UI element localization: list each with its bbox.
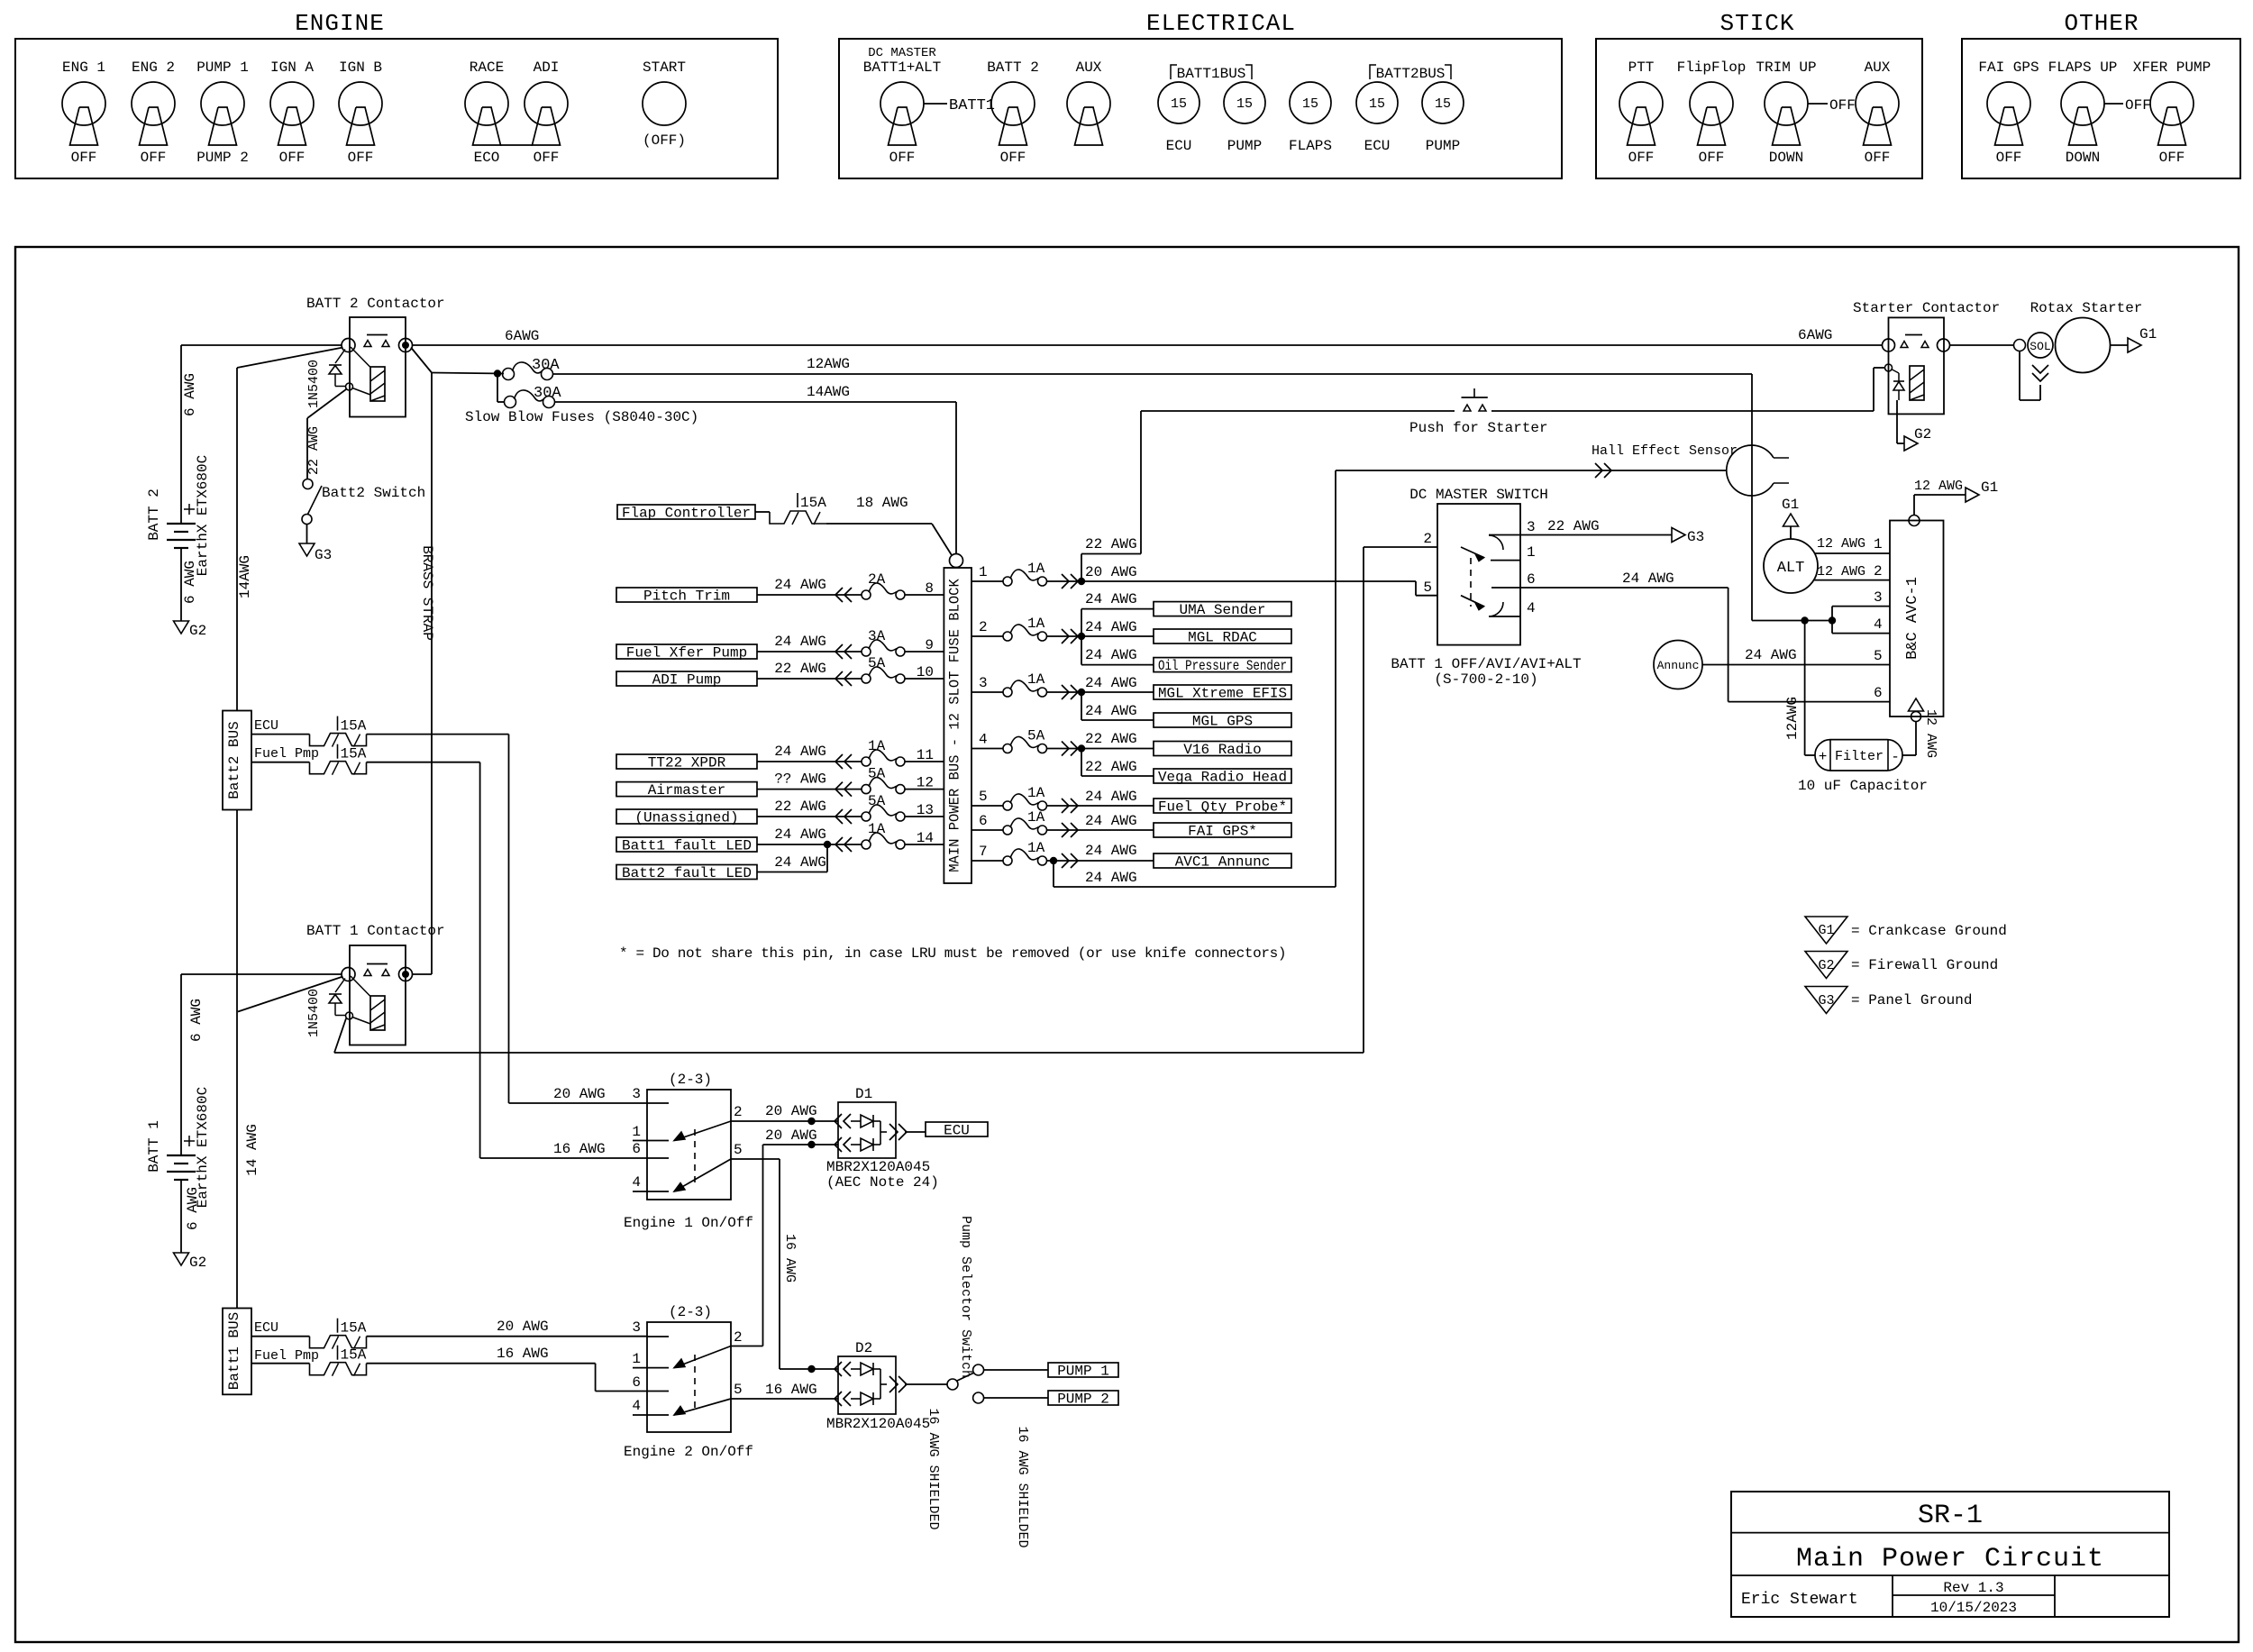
svg-text:24 AWG: 24 AWG <box>1085 789 1137 805</box>
svg-text:Fuel Pmp: Fuel Pmp <box>254 1348 319 1364</box>
contactor BATT 2 Contactor coil <box>370 367 385 401</box>
svg-text:22 AWG: 22 AWG <box>1085 759 1137 775</box>
svg-text:G3: G3 <box>1818 993 1834 1009</box>
load box Batt2 fault LED <box>616 865 757 880</box>
svg-text:Airmaster: Airmaster <box>648 782 725 799</box>
fuse 15A PUMP (BATT1BUS) <box>1224 82 1265 123</box>
contactor BATT 2 Contactor flyback diode 1N5400 <box>335 350 345 364</box>
wire BATT2 left terminal to 14AWG drop <box>237 348 343 369</box>
svg-text:OFF: OFF <box>1829 97 1856 114</box>
Engine2 pin 1 contact <box>633 1367 669 1369</box>
svg-text:Rev 1.3: Rev 1.3 <box>1943 1580 2003 1596</box>
junction splice D1 lower <box>807 1141 815 1148</box>
svg-text:BATT 2: BATT 2 <box>987 59 1039 76</box>
svg-text:22 AWG: 22 AWG <box>1085 731 1137 747</box>
wire 12 AWG ALT to B&C pin 2 <box>1814 580 1891 581</box>
Engine1 pin 5 wire <box>731 1158 780 1160</box>
svg-text:2: 2 <box>1874 563 1883 580</box>
svg-text:3: 3 <box>1527 519 1536 535</box>
svg-text:12 AWG: 12 AWG <box>1923 709 1938 758</box>
toggle switch ADI <box>524 82 568 125</box>
svg-text:30A: 30A <box>532 357 560 374</box>
svg-text:20 AWG: 20 AWG <box>553 1086 606 1102</box>
svg-text:OFF: OFF <box>141 150 167 166</box>
svg-text:RACE: RACE <box>470 59 504 76</box>
fuse block right pin 7 <box>971 860 1003 862</box>
wire Batt2 coil to Batt2 Switch <box>307 389 346 418</box>
svg-text:20 AWG: 20 AWG <box>765 1127 817 1144</box>
wire 30A lower feed <box>497 374 498 403</box>
contactor box Starter Contactor <box>1889 317 1945 414</box>
wire 12AWG down to filter <box>1804 621 1806 756</box>
svg-text:Pitch Trim: Pitch Trim <box>643 589 730 605</box>
svg-text:6 AWG: 6 AWG <box>188 999 205 1042</box>
Engine1 pin 3 contact <box>647 1102 669 1104</box>
wire Engine2 pin2 riser to D1 lower <box>731 1346 763 1347</box>
wire pin6 to FAI GPS <box>1047 829 1154 831</box>
wire 12AWG fuse to starter area <box>553 373 1753 375</box>
ground G2 (BATT 2) <box>174 621 189 634</box>
pushbutton START <box>643 82 686 125</box>
svg-text:ECO: ECO <box>474 150 500 166</box>
svg-text:8: 8 <box>925 580 934 597</box>
svg-text:DOWN: DOWN <box>2066 150 2100 166</box>
pushbutton Push for Starter <box>1462 397 1488 398</box>
svg-text:V16 Radio: V16 Radio <box>1183 742 1261 758</box>
annunciator Annunc <box>1654 641 1702 689</box>
svg-text:MGL Xtreme EFIS: MGL Xtreme EFIS <box>1158 686 1287 702</box>
svg-text:3: 3 <box>632 1319 641 1336</box>
Engine1 pin 6 contact <box>647 1157 669 1159</box>
svg-text:G2: G2 <box>189 1255 206 1271</box>
svg-text:MGL RDAC: MGL RDAC <box>1188 630 1257 646</box>
svg-text:BATT 1 Contactor: BATT 1 Contactor <box>306 923 445 939</box>
svg-text:22 AWG: 22 AWG <box>774 799 826 815</box>
wire Fuel Xfer Pump to fuse block pin 9 <box>757 651 862 653</box>
svg-text:IGN A: IGN A <box>270 59 314 76</box>
Engine1 blade 5-4 <box>674 1159 731 1191</box>
toggle switch AUX <box>1067 82 1110 125</box>
hall effect sensor ring <box>1727 445 1774 496</box>
svg-text:10: 10 <box>917 664 934 680</box>
svg-text:ALT: ALT <box>1777 560 1805 577</box>
ground G1 (B&C top) <box>1966 488 1979 502</box>
svg-text:14 AWG: 14 AWG <box>244 1124 260 1176</box>
svg-text:22 AWG: 22 AWG <box>774 661 826 677</box>
Engine1 mech link dashed <box>694 1129 696 1182</box>
svg-text:D1: D1 <box>855 1086 872 1102</box>
fuse block right pin 3 <box>971 691 1003 693</box>
svg-text:= Crankcase Ground: = Crankcase Ground <box>1851 923 2007 939</box>
wire BATT1 left terminal to 14AWG riser <box>238 977 343 1012</box>
capacitor Filter 10uF <box>1815 740 1902 771</box>
svg-text:MAIN POWER BUS - 12 SLOT FUSE: MAIN POWER BUS - 12 SLOT FUSE BLOCK <box>947 579 963 872</box>
solenoid SOL <box>2028 333 2053 358</box>
svg-text:1A: 1A <box>868 821 886 837</box>
load box Oil Pressure Sender <box>1154 658 1291 672</box>
svg-text:24 AWG: 24 AWG <box>1745 647 1797 663</box>
fuse block top terminal <box>950 554 963 568</box>
svg-text:ADI: ADI <box>534 59 560 76</box>
svg-text:Fuel Qty Probe*: Fuel Qty Probe* <box>1158 799 1287 816</box>
svg-text:ECU: ECU <box>254 718 278 734</box>
svg-text:+: + <box>1819 749 1828 765</box>
svg-text:(OFF): (OFF) <box>643 132 686 149</box>
svg-text:SOL: SOL <box>2030 340 2050 353</box>
wire starter coil to ground <box>1896 400 1898 443</box>
Engine2 mech link dashed <box>694 1355 696 1413</box>
svg-text:5A: 5A <box>1027 728 1045 744</box>
svg-text:24 AWG: 24 AWG <box>774 634 826 650</box>
svg-text:FlipFlop: FlipFlop <box>1677 59 1747 76</box>
svg-text:16 AWG SHIELDED: 16 AWG SHIELDED <box>926 1408 941 1529</box>
Engine1 pin 4 contact <box>633 1191 669 1192</box>
Engine1 pin 1 contact <box>633 1140 669 1142</box>
toggle switch RACE/ECO <box>465 82 508 125</box>
svg-text:Push for Starter: Push for Starter <box>1409 420 1548 436</box>
wire Batt1 fault LED to fuse block pin 14 <box>757 844 862 845</box>
svg-text:4: 4 <box>979 732 988 748</box>
wire brass strap to BATT1 right terminal <box>413 973 432 975</box>
load box MGL RDAC <box>1154 629 1291 643</box>
svg-text:15: 15 <box>1171 96 1187 112</box>
svg-text:16 AWG SHIELDED: 16 AWG SHIELDED <box>1015 1426 1030 1547</box>
svg-text:UMA Sender: UMA Sender <box>1179 602 1265 618</box>
svg-text:G1: G1 <box>1981 479 1998 496</box>
battery BATT 1 plates <box>167 1155 196 1156</box>
fuse 15A FLAPS <box>1290 82 1331 123</box>
svg-text:10/15/2023: 10/15/2023 <box>1930 1600 2017 1616</box>
B&C top terminal <box>1909 516 1920 526</box>
fuse 30A lower <box>505 397 516 408</box>
svg-text:FLAPS UP: FLAPS UP <box>2048 59 2118 76</box>
svg-text:1A: 1A <box>1027 840 1045 856</box>
svg-text:24 AWG: 24 AWG <box>1085 591 1137 607</box>
svg-text:15: 15 <box>1302 96 1318 112</box>
svg-text:1A: 1A <box>1027 809 1045 826</box>
svg-text:24 AWG: 24 AWG <box>1085 813 1137 829</box>
svg-text:6AWG: 6AWG <box>1798 327 1832 343</box>
wire solenoid winding <box>2019 351 2020 401</box>
svg-text:ENG 1: ENG 1 <box>62 59 105 76</box>
wire hall sensor signal <box>1336 470 1727 471</box>
svg-text:15A: 15A <box>341 1320 367 1337</box>
svg-text:11: 11 <box>917 747 934 763</box>
svg-text:?? AWG: ?? AWG <box>774 771 826 788</box>
svg-text:3A: 3A <box>868 628 886 644</box>
fuse block MAIN POWER BUS - 12 SLOT FUSE BLOCK <box>944 568 971 883</box>
svg-text:Hall Effect Sensor: Hall Effect Sensor <box>1592 443 1738 459</box>
contactor BATT 1 Contactor contact triangles <box>364 970 371 976</box>
fuse block right pin 6 <box>971 829 1003 831</box>
ground G1 (ALT) <box>1783 514 1799 526</box>
fuse block right pin 4 <box>971 748 1003 750</box>
svg-text:MGL GPS: MGL GPS <box>1192 714 1253 730</box>
wire 24 AWG to MGL GPS <box>1081 692 1082 720</box>
svg-text:AVC1 Annunc: AVC1 Annunc <box>1175 854 1271 871</box>
panel box STICK <box>1596 39 1922 178</box>
load box Batt1 fault LED <box>616 837 757 852</box>
wire D2 output to pump selector <box>905 1383 947 1385</box>
wire Airmaster to fuse block pin 12 <box>757 789 862 790</box>
load box PUMP 1 <box>1048 1363 1118 1377</box>
svg-text:14AWG: 14AWG <box>237 555 253 598</box>
svg-text:Engine 2 On/Off: Engine 2 On/Off <box>624 1444 753 1460</box>
DC master blade upper <box>1461 547 1484 558</box>
ground G2 (starter) <box>1904 436 1918 451</box>
legend ground G3 <box>1805 987 1847 1014</box>
wire BATT2 battery positive lead <box>180 345 182 524</box>
svg-text:TT22 XPDR: TT22 XPDR <box>648 755 726 771</box>
svg-text:1: 1 <box>979 564 988 580</box>
panel box OTHER <box>1962 39 2240 178</box>
svg-text:= Firewall Ground: = Firewall Ground <box>1851 957 1998 973</box>
svg-text:12AWG: 12AWG <box>807 356 850 372</box>
starter contactor left terminal <box>1883 339 1895 351</box>
wire Batt2 fault LED join <box>757 872 827 873</box>
junction 12AWG <box>1801 616 1808 624</box>
DC master pin 6 contact <box>1491 587 1520 589</box>
svg-text:MBR2X120A045: MBR2X120A045 <box>826 1159 930 1175</box>
toggle switch PUMP 1 / PUMP 2 <box>201 82 244 125</box>
svg-text:12 AWG: 12 AWG <box>1817 536 1865 552</box>
svg-text:G2: G2 <box>189 623 206 639</box>
svg-text:ELECTRICAL: ELECTRICAL <box>1146 10 1296 37</box>
load box Airmaster <box>616 782 757 797</box>
svg-text:BATT 1: BATT 1 <box>146 1120 162 1173</box>
contactor BATT 1 Contactor coil terminal <box>346 1012 353 1019</box>
Engine2 pin 6 contact <box>647 1391 669 1392</box>
battery BATT 1 plus sign <box>184 1140 195 1142</box>
svg-text:(AEC Note 24): (AEC Note 24) <box>826 1174 939 1191</box>
svg-text:TRIM UP: TRIM UP <box>1756 59 1816 76</box>
svg-text:24 AWG: 24 AWG <box>1085 619 1137 635</box>
svg-text:24 AWG: 24 AWG <box>1085 843 1137 859</box>
contactor BATT 1 Contactor left terminal <box>342 968 355 981</box>
wire BATT1 battery positive lead <box>180 974 182 1155</box>
load box Pitch Trim <box>616 588 757 602</box>
svg-text:15A: 15A <box>341 1347 367 1364</box>
wire BATT1 coil to master switch line <box>334 1018 346 1053</box>
battery BATT 2 plates <box>167 523 196 525</box>
svg-text:G1: G1 <box>1818 923 1834 938</box>
alternator ALT <box>1764 539 1818 593</box>
wire 24 AWG annunc to B&C pin 5 <box>1702 664 1890 666</box>
load box MGL GPS <box>1154 713 1291 727</box>
load box Fuel Qty Probe* <box>1154 799 1291 813</box>
contactor BATT 2 Contactor left terminal <box>342 339 355 352</box>
Engine2 pin 3 contact <box>647 1336 669 1337</box>
svg-text:24 AWG: 24 AWG <box>1085 703 1137 719</box>
svg-text:1A: 1A <box>1027 671 1045 688</box>
wire B&C bottom to filter minus <box>1915 722 1917 756</box>
svg-text:1: 1 <box>1874 536 1883 552</box>
svg-text:= Panel Ground: = Panel Ground <box>1851 992 1972 1009</box>
svg-text:OFF: OFF <box>279 150 306 166</box>
svg-text:ADI Pump: ADI Pump <box>652 672 722 689</box>
svg-text:24 AWG: 24 AWG <box>774 854 826 871</box>
svg-text:BATT 2: BATT 2 <box>146 488 162 541</box>
battery BATT 2 plus sign <box>184 508 195 510</box>
svg-text:Starter Contactor: Starter Contactor <box>1853 300 2000 316</box>
starter contactor right terminal <box>1938 339 1950 351</box>
bus box Batt1 BUS <box>223 1309 251 1395</box>
svg-text:15: 15 <box>1369 96 1385 112</box>
svg-text:6: 6 <box>1527 571 1536 588</box>
svg-text:18 AWG: 18 AWG <box>856 495 908 511</box>
svg-text:BATT 1 OFF/AVI/AVI+ALT: BATT 1 OFF/AVI/AVI+ALT <box>1391 656 1581 672</box>
svg-text:16 AWG: 16 AWG <box>553 1141 606 1157</box>
svg-text:PUMP 2: PUMP 2 <box>1057 1392 1109 1408</box>
svg-text:* = Do not share this pin, in: * = Do not share this pin, in case LRU m… <box>619 945 1286 962</box>
svg-text:PUMP 1: PUMP 1 <box>1057 1364 1109 1380</box>
svg-text:16 AWG: 16 AWG <box>497 1346 549 1362</box>
svg-text:EarthX ETX680C: EarthX ETX680C <box>195 455 211 576</box>
svg-text:Batt2 Switch: Batt2 Switch <box>322 485 425 501</box>
svg-text:6: 6 <box>1874 685 1883 701</box>
svg-text:-: - <box>1891 749 1900 765</box>
panel box ELECTRICAL <box>839 39 1562 178</box>
panel box ENGINE <box>15 39 778 178</box>
svg-text:OFF: OFF <box>1865 150 1891 166</box>
toggle switch IGN A <box>270 82 314 125</box>
wire TRIM OFF tick <box>1808 103 1828 105</box>
wire 24 AWG to UMA Sender <box>1081 609 1082 636</box>
svg-text:OFF: OFF <box>1996 150 2022 166</box>
svg-text:15A: 15A <box>341 746 367 762</box>
svg-text:Batt1 BUS: Batt1 BUS <box>226 1312 242 1390</box>
svg-text:G3: G3 <box>315 547 332 563</box>
svg-text:FLAPS: FLAPS <box>1289 138 1332 154</box>
B&C bottom terminal <box>1911 712 1921 722</box>
contactor BATT 1 Contactor flyback diode 1N5400 <box>335 979 345 993</box>
breaker 15A flaps <box>770 511 826 524</box>
svg-text:G2: G2 <box>1818 958 1834 973</box>
svg-text:1A: 1A <box>868 738 886 754</box>
svg-text:24 AWG: 24 AWG <box>1622 570 1674 587</box>
wire DC master pin2 riser <box>1363 547 1364 1053</box>
svg-text:OFF: OFF <box>1628 150 1655 166</box>
svg-text:1: 1 <box>632 1124 641 1140</box>
wire 24 AWG pin7 branch to hall sensor feed <box>1053 861 1054 887</box>
wire rotax to G1 <box>2111 344 2129 346</box>
toggle switch TRIM UP/DOWN <box>1765 82 1808 125</box>
svg-text:6 AWG: 6 AWG <box>182 373 198 416</box>
svg-text:6: 6 <box>632 1141 641 1157</box>
svg-text:30A: 30A <box>534 385 561 402</box>
svg-text:AUX: AUX <box>1865 59 1891 76</box>
starter contactor coil <box>1910 366 1924 400</box>
starter contactor coil terminal <box>1885 364 1893 371</box>
svg-text:24 AWG: 24 AWG <box>1085 675 1137 691</box>
junction splice D1 upper <box>807 1118 815 1125</box>
toggle switch IGN B <box>339 82 382 125</box>
wire selector to PUMP 1 <box>984 1369 1048 1371</box>
svg-text:D2: D2 <box>855 1340 872 1356</box>
wire pin4 to V16 Radio <box>1047 748 1154 750</box>
svg-text:Batt2 fault LED: Batt2 fault LED <box>622 865 752 881</box>
svg-text:3: 3 <box>1874 589 1883 606</box>
svg-text:ECU: ECU <box>1166 138 1192 154</box>
svg-text:Batt2 BUS: Batt2 BUS <box>226 721 242 799</box>
svg-text:PUMP: PUMP <box>1426 138 1460 154</box>
DC master pin 1 contact <box>1491 560 1520 561</box>
load box TT22 XPDR <box>616 754 757 769</box>
wire pin2 junction <box>1047 635 1154 637</box>
wire 20AWG Batt2 ECU to Engine1 pin3 <box>367 734 509 735</box>
svg-text:OFF: OFF <box>2159 150 2185 166</box>
svg-text:OFF: OFF <box>1699 150 1725 166</box>
svg-text:Batt1 fault LED: Batt1 fault LED <box>622 838 752 854</box>
svg-text:FAI GPS: FAI GPS <box>1978 59 2039 76</box>
svg-text:15A: 15A <box>800 495 826 511</box>
svg-text:Oil Pressure Sender: Oil Pressure Sender <box>1158 658 1287 674</box>
svg-text:1A: 1A <box>1027 616 1045 632</box>
svg-text:BATT 2 Contactor: BATT 2 Contactor <box>306 296 445 312</box>
svg-text:16 AWG: 16 AWG <box>782 1234 798 1282</box>
wire 24 AWG to Oil Pressure Sender <box>1081 636 1082 665</box>
toggle switch ENG 1 <box>62 82 105 125</box>
wire brass strap <box>411 348 432 373</box>
svg-text:14AWG: 14AWG <box>807 384 850 400</box>
DC master blade lower <box>1461 596 1484 607</box>
Engine2 blade 2-1 <box>674 1346 731 1368</box>
svg-text:5: 5 <box>979 789 988 805</box>
svg-text:BATT1BUS: BATT1BUS <box>1177 66 1246 82</box>
svg-text:12: 12 <box>917 775 934 791</box>
switch Pump Selector Switch <box>947 1379 958 1390</box>
bus box Batt2 BUS <box>223 711 251 810</box>
load box UMA Sender <box>1154 602 1291 616</box>
svg-text:12AWG: 12AWG <box>1784 697 1801 740</box>
svg-text:OFF: OFF <box>2125 97 2151 114</box>
svg-text:24 AWG: 24 AWG <box>1085 870 1137 886</box>
svg-text:PUMP: PUMP <box>1227 138 1262 154</box>
svg-text:24 AWG: 24 AWG <box>1085 647 1137 663</box>
svg-text:START: START <box>643 59 686 76</box>
DC master mech link dashed <box>1470 558 1472 607</box>
svg-text:24 AWG: 24 AWG <box>774 577 826 593</box>
svg-text:4: 4 <box>1527 600 1536 616</box>
wire BATT2 battery negative lead <box>180 548 182 621</box>
svg-text:(S-700-2-10): (S-700-2-10) <box>1434 671 1537 688</box>
wire 20 AWG pin1 to DC master pin 5 <box>1047 580 1417 582</box>
wire FLAPS OFF tick <box>2104 103 2123 105</box>
svg-text:6AWG: 6AWG <box>505 328 539 344</box>
svg-text:6 AWG: 6 AWG <box>185 1187 201 1230</box>
svg-text:24 AWG: 24 AWG <box>774 744 826 760</box>
svg-text:OFF: OFF <box>71 150 97 166</box>
svg-text:G2: G2 <box>1914 426 1931 443</box>
starter contactor contact bar <box>1905 334 1922 336</box>
svg-text:PUMP 2: PUMP 2 <box>196 150 249 166</box>
toggle switch PTT <box>1619 82 1663 125</box>
wire 22 AWG branch to push-for-starter <box>1081 554 1082 582</box>
toggle switch AUX (stick) <box>1856 82 1899 125</box>
wire 16 AWG Batt1 Fuel Pmp to Engine2 pin6 <box>367 1363 596 1364</box>
load box FAI GPS* <box>1154 823 1291 837</box>
svg-text:20 AWG: 20 AWG <box>765 1103 817 1119</box>
fuse block right pin 1 <box>971 580 1003 582</box>
svg-text:Slow Blow Fuses (S8040-30C): Slow Blow Fuses (S8040-30C) <box>465 409 698 425</box>
DC master pin 3 contact <box>1489 535 1503 550</box>
contactor BATT 2 Contactor coil terminal <box>346 383 353 390</box>
svg-text:ECU: ECU <box>944 1123 970 1139</box>
wire to slow blow fuses (12AWG feed) <box>432 373 504 374</box>
svg-text:1: 1 <box>632 1351 641 1367</box>
svg-text:3: 3 <box>632 1086 641 1102</box>
svg-text:22 AWG: 22 AWG <box>306 426 322 475</box>
